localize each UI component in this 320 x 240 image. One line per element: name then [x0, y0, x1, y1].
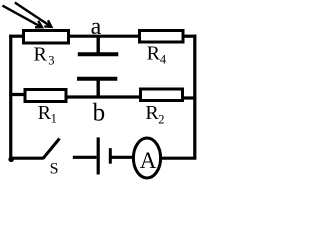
wire R1 to R2	[67, 95, 142, 98]
wire right rail	[193, 35, 196, 160]
switch S blade	[43, 139, 60, 159]
wire battery to ammeter	[110, 156, 133, 159]
wire R4 to right rail	[182, 35, 196, 38]
capacitor bottom plate	[77, 77, 117, 81]
wire left rail	[9, 35, 12, 160]
resistor R2	[141, 89, 183, 101]
light arrow 2	[15, 3, 52, 27]
svg-text:4: 4	[160, 53, 167, 67]
wire R3 to R4	[69, 35, 141, 38]
resistor R1	[25, 90, 66, 102]
wire row2 left stub	[9, 93, 26, 96]
resistor R4	[140, 31, 184, 43]
capacitor bottom lead	[96, 79, 99, 96]
battery long plate	[97, 137, 100, 174]
wire R2 to right rail	[182, 96, 197, 99]
svg-text:R: R	[145, 102, 159, 124]
capacitor top plate	[78, 52, 119, 56]
junction dot bottom-left corner	[8, 157, 14, 163]
light arrow 1	[2, 6, 42, 28]
ammeter A	[133, 138, 160, 178]
svg-text:R: R	[38, 102, 52, 124]
wire row1 left stub	[9, 35, 24, 38]
resistor R3	[24, 31, 69, 44]
svg-text:S: S	[50, 161, 59, 178]
svg-text:3: 3	[48, 54, 54, 68]
battery short plate	[109, 148, 112, 164]
wire bottom left	[9, 157, 43, 160]
capacitor top lead	[96, 36, 99, 54]
wire ammeter to right rail	[160, 157, 196, 160]
svg-text:1: 1	[51, 111, 57, 125]
svg-text:a: a	[91, 14, 102, 40]
svg-text:R: R	[147, 42, 161, 64]
svg-text:R: R	[34, 44, 48, 66]
wire switch contact to battery	[73, 156, 97, 159]
svg-text:2: 2	[158, 112, 164, 126]
svg-text:b: b	[93, 99, 106, 126]
svg-text:A: A	[140, 148, 157, 173]
